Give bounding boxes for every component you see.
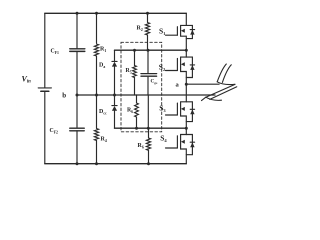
junction dots mid128 [135, 127, 138, 130]
wire node-a output [186, 83, 219, 85]
resistor R3 [146, 138, 150, 150]
wire CF branch lower [76, 131, 78, 164]
battery Vin [38, 88, 51, 91]
wire R2 top [147, 13, 149, 22]
transistor S2 [166, 50, 195, 84]
wire R5 top [134, 50, 136, 65]
junction dots mid50 [133, 49, 136, 52]
wire R3 top [148, 128, 150, 138]
wire C1 top [147, 50, 149, 72]
svg-text:Da: Da [99, 63, 105, 69]
transistor S4 [166, 128, 195, 164]
wire S3-S4 midpoint [115, 127, 187, 129]
svg-text:R6: R6 [127, 108, 133, 114]
junction dots bottom rail [76, 162, 79, 165]
resistor R4 [94, 129, 98, 141]
svg-text:R4: R4 [101, 137, 107, 143]
svg-text:b: b [62, 92, 66, 100]
wire C1 bottom [147, 77, 149, 95]
svg-text:R6: R6 [138, 143, 144, 149]
wire R6 bottom [136, 117, 138, 128]
wire CF mid [76, 51, 78, 127]
junction dot a [185, 83, 188, 86]
diode Da (upper clamp) [112, 60, 117, 62]
svg-text:S2: S2 [159, 63, 166, 73]
wire bottom rail [45, 163, 187, 165]
resistor R2 [145, 23, 149, 35]
junction dots top rail [76, 12, 79, 15]
wire R5 bottom [134, 78, 136, 96]
wire R6 top [136, 95, 138, 103]
svg-text:Cgs: Cgs [151, 79, 158, 85]
svg-text:S4: S4 [160, 133, 167, 143]
wire R1 top [96, 13, 98, 43]
svg-text:S3: S3 [159, 103, 166, 113]
wire R1-b [96, 56, 98, 128]
diode Dcc (lower clamp) [112, 105, 117, 107]
resistor R5 [133, 66, 137, 78]
wire node-b horizontal [77, 94, 215, 96]
wire R4 bottom [96, 141, 98, 164]
wire left rail upper [44, 13, 46, 88]
svg-text:Dcc: Dcc [99, 109, 107, 115]
wire S1-S2 midpoint [115, 49, 187, 51]
svg-text:R1: R1 [100, 47, 106, 53]
svg-text:a: a [176, 82, 180, 89]
svg-text:R5: R5 [126, 68, 132, 74]
wire diode branch upper [114, 50, 116, 61]
transistor S1 [166, 13, 195, 50]
capacitor CF1 [70, 48, 85, 50]
junction dots b-wire [76, 94, 79, 97]
wire aux branch [147, 95, 149, 128]
resistor R6 [135, 103, 139, 117]
svg-text:Vin: Vin [22, 74, 32, 84]
svg-text:R2: R2 [137, 26, 143, 32]
svg-text:CF2: CF2 [50, 128, 59, 134]
dashed gate-network box [121, 42, 162, 132]
capacitor CF2 [70, 127, 84, 129]
resistor R1 [94, 44, 98, 56]
wire top rail [45, 12, 187, 14]
svg-text:S1: S1 [159, 27, 166, 37]
transistor S3 [166, 84, 195, 128]
svg-text:CF1: CF1 [51, 49, 60, 55]
wire R2 bottom [147, 35, 149, 50]
wire left rail lower [44, 91, 46, 163]
wire CF branch upper [76, 13, 78, 49]
output lightning arrow [202, 64, 237, 101]
wire R3 bottom [148, 150, 150, 163]
capacitor C1 [141, 73, 157, 75]
